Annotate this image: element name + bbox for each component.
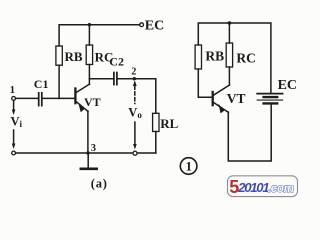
wire: RB bottom to base [198, 69, 212, 97]
Vo open circle node [133, 151, 137, 155]
resistor RL [153, 113, 159, 131]
terminal EC left [140, 23, 144, 27]
transistor VT base bar (right) [212, 92, 214, 105]
wire: C1 to transistor base [43, 97, 75, 99]
transistor VT emitter (right) [213, 102, 228, 112]
svg-text:VT: VT [227, 91, 246, 106]
wire: bottom rail left circuit [16, 152, 156, 154]
capacitor C2 [113, 73, 115, 85]
resistor RB (right circuit) [195, 45, 201, 69]
ground bar [81, 167, 97, 170]
battery EC plate long top [257, 93, 282, 95]
svg-text:RB: RB [205, 49, 224, 64]
circled 1 figure label [180, 158, 197, 175]
svg-text:1: 1 [186, 158, 193, 173]
Vo arrow down segment [134, 122, 136, 146]
transistor VT emitter (left) [76, 101, 88, 111]
resistor RB (left circuit) [56, 46, 62, 65]
wire: RC top [88, 25, 90, 45]
wire: RC bottom / collector vertical [228, 67, 230, 85]
wire: RL bottom [155, 132, 157, 154]
Vo dashed line [134, 86, 136, 104]
svg-text:C2: C2 [109, 54, 124, 68]
svg-text:1: 1 [10, 85, 15, 96]
node junction right top [228, 21, 232, 25]
battery short thick plate 2 [264, 102, 278, 104]
svg-text:VT: VT [84, 95, 101, 109]
wire: emitter down / bottom rail / right vertical [228, 104, 271, 161]
svg-text:.com: .com [268, 183, 294, 195]
svg-text:RB: RB [65, 49, 83, 64]
Vi arrow lower segment [13, 130, 15, 146]
resistor RC (left circuit) [86, 45, 92, 65]
wire: RB bottom to base rail [58, 65, 60, 98]
wire: RC top [228, 23, 230, 43]
ground stem [87, 153, 89, 168]
emitter arrowhead (right) [218, 104, 224, 114]
wire: right circuit top rail [198, 23, 271, 93]
wire: left circuit top rail [59, 25, 140, 46]
resistor RC (right circuit) [226, 43, 232, 67]
emitter arrowhead (left) [78, 103, 84, 113]
Vo arrow up (below node 2) [133, 80, 137, 86]
node junction top rail / RC [88, 23, 91, 26]
node 2 dot [133, 77, 136, 80]
transistor VT collector (right) [213, 85, 229, 95]
wire: input to C1 [16, 97, 39, 99]
svg-text:EC: EC [278, 78, 297, 93]
terminal input top (node 1) [12, 97, 16, 101]
battery long thin plate [257, 99, 282, 101]
svg-text:RL: RL [160, 116, 178, 131]
svg-text:20101: 20101 [237, 180, 269, 195]
battery short thick plate [264, 96, 278, 98]
transistor VT base bar (left) [74, 89, 76, 104]
watermark 520101.com [228, 176, 298, 197]
transistor VT collector (left) [76, 84, 89, 92]
capacitor C1 [38, 93, 40, 106]
terminal input bottom [12, 151, 16, 155]
svg-text:RC: RC [236, 51, 256, 66]
Vi arrow upper segment [13, 102, 15, 112]
wire: collector node to C2 [89, 78, 113, 80]
node 3 dot [86, 151, 89, 154]
svg-text:EC: EC [145, 18, 164, 33]
svg-text:C1: C1 [34, 77, 49, 91]
wire: emitter down to node 3 [87, 111, 89, 153]
svg-text:(a): (a) [91, 176, 108, 190]
wire: RC bottom / collector vertical [88, 65, 90, 85]
svg-text:3: 3 [91, 143, 96, 154]
wire: C2 to node 2 to RL corner [118, 79, 156, 114]
svg-text:2: 2 [131, 67, 136, 78]
